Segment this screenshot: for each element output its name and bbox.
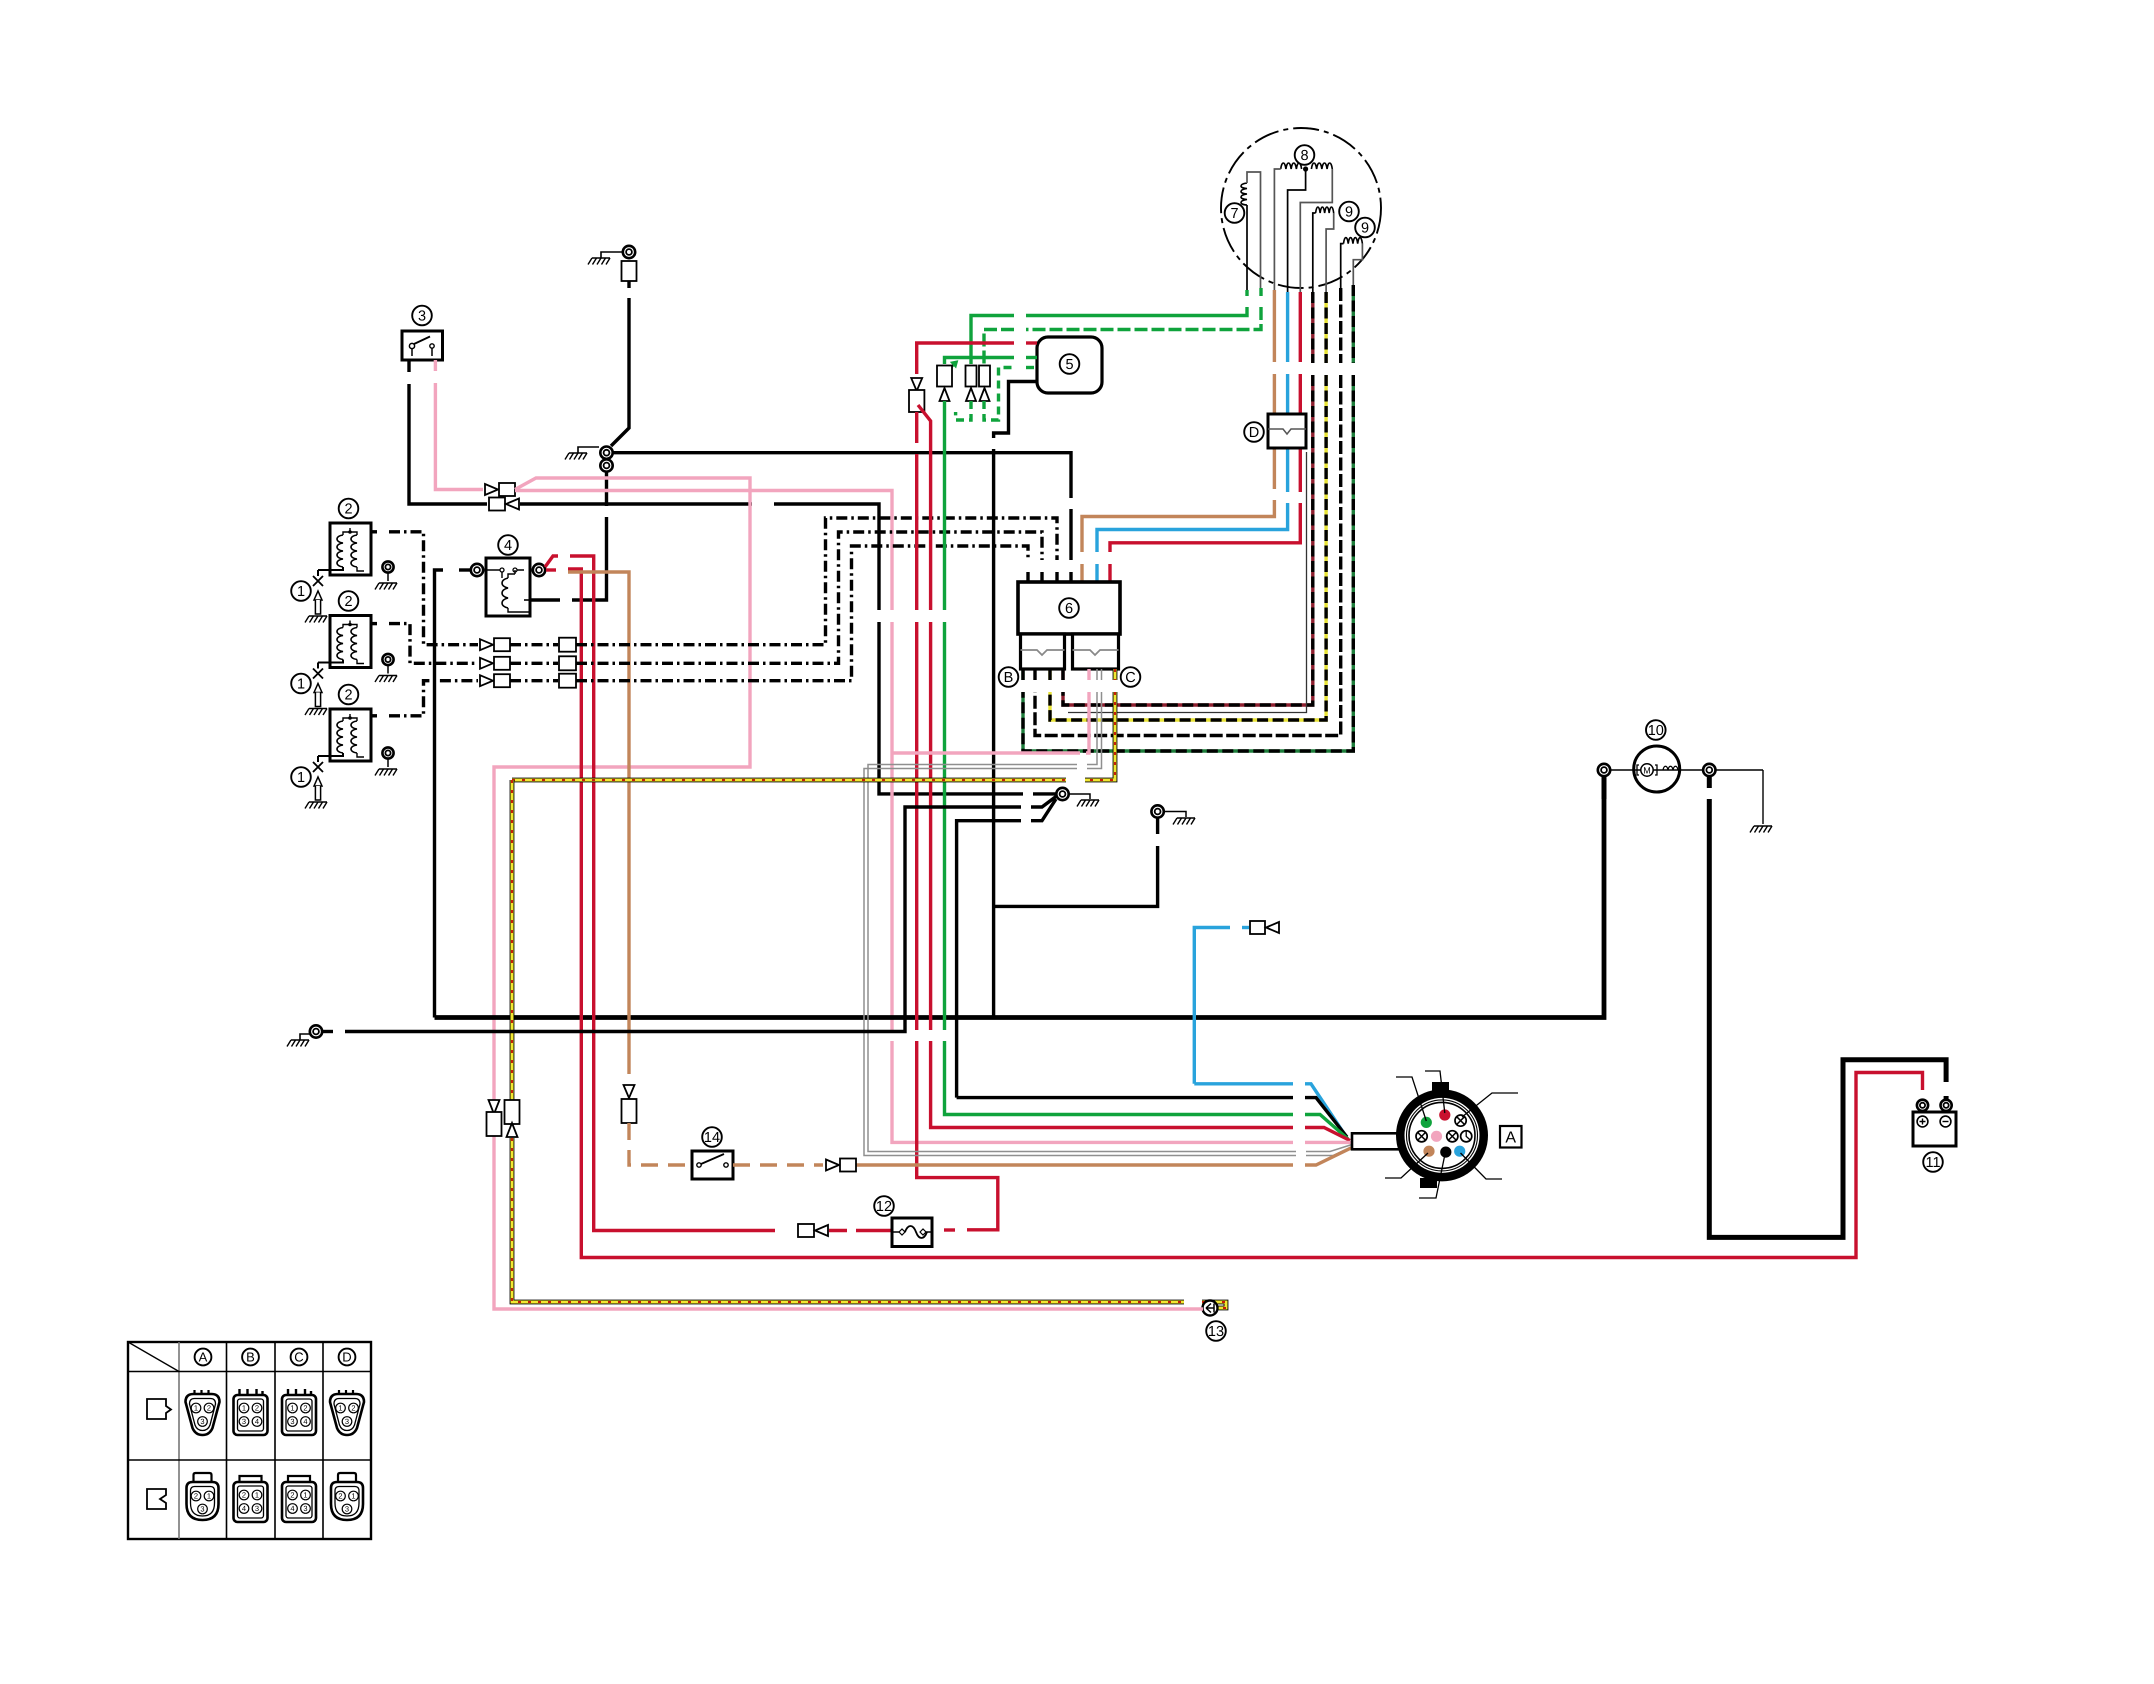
label 2 [339, 591, 359, 611]
wire brown flywheel to rectifier D [1273, 290, 1276, 362]
label 12 [874, 1196, 894, 1216]
warning lamp 13 [1203, 1301, 1218, 1316]
wire pink CDI C to harness [1087, 669, 1090, 680]
wire black comp5 down [994, 382, 1037, 439]
svg-text:3: 3 [242, 1417, 246, 1426]
table cell B1 [240, 1389, 263, 1395]
label 9 (first) [1339, 202, 1359, 222]
svg-text:4: 4 [290, 1504, 294, 1513]
pin white [1461, 1131, 1472, 1142]
connector pair on red fuse wire [798, 1224, 814, 1237]
label 2 [339, 499, 359, 519]
label 6 [1059, 598, 1079, 618]
svg-text:2: 2 [207, 1404, 211, 1413]
ignition coil 2 (#3) [330, 709, 371, 761]
wire pink branch upper to x750 [494, 478, 750, 1100]
svg-text:1: 1 [207, 1492, 211, 1501]
table cell A2 [194, 1473, 212, 1482]
table cell C1 [288, 1389, 311, 1395]
label 3 [412, 306, 432, 326]
svg-text:4: 4 [242, 1504, 246, 1513]
svg-text:2: 2 [338, 1492, 342, 1501]
label 11 [1923, 1152, 1943, 1172]
switch 14 [692, 1151, 733, 1179]
svg-text:10: 10 [1648, 723, 1664, 739]
wire red comp5 angled branch to connector A [918, 405, 931, 610]
wire blue flywheel through D [1286, 292, 1289, 362]
svg-text:7: 7 [1230, 206, 1238, 222]
relay R4 [486, 558, 530, 616]
wire black long y=453 to CDI drop [613, 453, 1071, 498]
label 9 (second) [1355, 218, 1375, 238]
rectifier D [1268, 414, 1306, 448]
fuse 12 [892, 1218, 932, 1247]
pin green [1421, 1117, 1432, 1128]
table cell D2 [338, 1473, 356, 1482]
spark plug 1 (#2) [317, 663, 319, 669]
wire brown harness segment [856, 1163, 1293, 1166]
svg-text:1: 1 [297, 677, 305, 693]
svg-text:C: C [1125, 670, 1135, 686]
svg-text:9: 9 [1345, 205, 1353, 221]
svg-text:4: 4 [504, 538, 512, 554]
label 2 [339, 685, 359, 705]
wire pink straight to x892 [515, 491, 892, 611]
wire dashdot coil3 primary [371, 714, 377, 717]
wire black from top ground down [627, 281, 630, 288]
starter motor 10 [1634, 746, 1680, 792]
wire black pulser2 to CDI B [1339, 288, 1342, 363]
svg-text:2: 2 [344, 688, 352, 704]
ground (top) [592, 257, 610, 259]
svg-text:D: D [1249, 425, 1259, 441]
svg-text:9: 9 [1361, 221, 1369, 237]
label C [1121, 667, 1141, 687]
svg-text:8: 8 [1300, 148, 1308, 164]
bolt engine ground 1 [1056, 788, 1068, 800]
connector B housing [1021, 634, 1065, 669]
connector pair on pink lamp wire [489, 1100, 500, 1114]
table cell D1 [339, 1390, 353, 1394]
control unit 5 [1037, 337, 1102, 393]
connector pair on black S3 wire [489, 498, 505, 511]
connector A body [1396, 1089, 1488, 1181]
ground at motor [1762, 770, 1764, 824]
bolt double (engine block joint) [600, 447, 612, 459]
label 4 [498, 535, 518, 555]
pin empty mid [1447, 1131, 1458, 1142]
svg-text:2: 2 [351, 1404, 355, 1413]
svg-text:4: 4 [255, 1417, 259, 1426]
connector on green/white [979, 366, 990, 387]
svg-text:3: 3 [345, 1505, 349, 1514]
svg-text:1: 1 [297, 584, 305, 600]
view icon male [147, 1399, 171, 1419]
wire red flywheel through D [1299, 292, 1302, 362]
svg-text:12: 12 [876, 1199, 892, 1215]
pin brown [1423, 1146, 1434, 1157]
wire black/yellow pulser1 to CDI B [1324, 292, 1327, 363]
svg-text:1: 1 [338, 1404, 342, 1413]
label B [999, 667, 1019, 687]
svg-text:2: 2 [242, 1491, 246, 1500]
bolt engine ground 2 [1151, 805, 1163, 817]
svg-text:14: 14 [704, 1130, 720, 1146]
svg-text:2: 2 [290, 1491, 294, 1500]
coil 9 pulser coil 1 [1316, 207, 1334, 213]
svg-text:1: 1 [303, 1491, 307, 1500]
pink stub into lamp [1200, 1307, 1203, 1310]
table cell A1 [195, 1390, 209, 1394]
svg-text:B: B [246, 1350, 255, 1365]
svg-text:3: 3 [255, 1504, 259, 1513]
connector C housing [1073, 634, 1119, 669]
wire black relay to vertical [459, 568, 470, 571]
ignition coil 2 (#1) [330, 523, 371, 575]
flywheel magneto outline [1221, 128, 1381, 288]
bolt battery minus [1941, 1100, 1952, 1111]
ground bolt of coil 1 [382, 561, 393, 572]
svg-text:11: 11 [1925, 1155, 1940, 1171]
svg-text:D: D [342, 1350, 351, 1365]
wire black bolt down to relay [605, 472, 608, 506]
connector A leader lines [1396, 1077, 1426, 1121]
wire blue accessory [1194, 928, 1230, 1084]
wire black/red pulser1 to CDI B [1311, 292, 1314, 363]
view icon female [147, 1489, 166, 1509]
table cell B2 [240, 1476, 262, 1482]
label 10 [1646, 720, 1666, 740]
pin blue [1454, 1146, 1465, 1157]
pin black [1440, 1147, 1451, 1158]
svg-text:A: A [1505, 1130, 1516, 1147]
bolt battery plus [1917, 1100, 1928, 1111]
pin pink [1431, 1131, 1442, 1142]
svg-text:4: 4 [303, 1417, 307, 1426]
svg-text:3: 3 [200, 1505, 204, 1514]
label 8 [1295, 145, 1315, 165]
svg-text:2: 2 [194, 1492, 198, 1501]
svg-text:3: 3 [200, 1417, 204, 1426]
switch S3 (engine stop) [402, 331, 443, 360]
wire green/white dashed from flywheel [1259, 288, 1262, 296]
label 14 [702, 1127, 722, 1147]
bolt motor right [1703, 764, 1715, 776]
label A box [1500, 1126, 1522, 1148]
battery 11 [1913, 1112, 1956, 1146]
wire red relay B battery feed [546, 568, 556, 571]
ground bolt of coil 3 [382, 747, 393, 758]
wire black motor to battery minus [1707, 777, 1712, 788]
coil 8 charge coil [1281, 163, 1302, 169]
svg-text:3: 3 [345, 1417, 349, 1426]
bolt relay right [533, 564, 545, 576]
svg-text:2: 2 [344, 502, 352, 518]
bolt relay left [471, 564, 483, 576]
svg-text:13: 13 [1208, 1324, 1224, 1340]
coil 9 pulser coil 2 [1344, 238, 1363, 244]
svg-text:1: 1 [351, 1492, 355, 1501]
connector pair on pink S3 wire [485, 484, 498, 495]
svg-text:2: 2 [344, 594, 352, 610]
wire black branch to engine ground bolt2 [994, 846, 1158, 906]
svg-text:3: 3 [418, 309, 426, 325]
ground bolt of coil 2 [382, 654, 393, 665]
wire black relay-starter y1017 [435, 788, 1605, 1018]
wire black from S3 [407, 360, 410, 372]
svg-text:5: 5 [1065, 357, 1073, 373]
harness sleeve [1352, 1133, 1408, 1149]
wire gray pair CDI C [1096, 669, 1098, 680]
svg-text:B: B [1004, 670, 1014, 686]
label 5 [1060, 354, 1080, 374]
spark plug 1 (#3) [317, 756, 319, 762]
coil 7 lighting coil [1241, 183, 1247, 205]
shield line pulser wires [1068, 452, 1307, 713]
wire dashdot coil2 primary [371, 622, 377, 625]
svg-text:1: 1 [194, 1404, 198, 1413]
table cell C2 [288, 1476, 310, 1482]
label D [1244, 422, 1264, 442]
svg-text:1: 1 [255, 1491, 259, 1500]
svg-text:6: 6 [1065, 601, 1073, 617]
wire dashdot coil1 primary [371, 530, 377, 533]
wire pink from S3 [434, 360, 437, 371]
CDI unit 6 [1018, 582, 1120, 634]
svg-text:C: C [294, 1350, 303, 1365]
svg-text:A: A [199, 1350, 208, 1365]
label 7 [1225, 203, 1245, 223]
label 1 [291, 581, 311, 601]
svg-text:3: 3 [303, 1504, 307, 1513]
connector pair on yellow/red [505, 1100, 520, 1124]
table header labels [195, 1349, 212, 1366]
fan wires to connector A sleeve [1305, 1084, 1345, 1135]
label 1 [291, 674, 311, 694]
pin red [1439, 1109, 1450, 1120]
ignition coil 2 (#2) [330, 616, 371, 668]
wire yellow/red CDI C to warning lamp [1113, 669, 1118, 680]
wire black strap from left ground [310, 1025, 322, 1037]
svg-text:1: 1 [297, 770, 305, 786]
wire red comp5 straight branch to fuse loop [915, 412, 918, 443]
spark plug 1 (#1) [317, 570, 319, 576]
connector terminal below top ground bolt [622, 261, 637, 281]
svg-text:M: M [1643, 766, 1651, 776]
wire green (lighting) from flywheel [1245, 290, 1248, 296]
label 13 [1206, 1321, 1226, 1341]
wire brown relay to trim switch S14 [568, 572, 629, 1074]
svg-text:1: 1 [290, 1404, 294, 1413]
connector on green [966, 366, 977, 387]
wire black/green pulser2 to CDI B [1352, 285, 1355, 363]
pin empty top right [1455, 1115, 1466, 1126]
wire black fan-A ground branch [957, 821, 1021, 1098]
svg-text:3: 3 [290, 1417, 294, 1426]
svg-text:2: 2 [255, 1404, 259, 1413]
label 1 [291, 767, 311, 787]
green mating arrow [945, 364, 955, 375]
wire brown after switch 14 [733, 1163, 823, 1166]
bolt motor left [1598, 764, 1610, 776]
connector view table [128, 1342, 371, 1539]
svg-text:1: 1 [242, 1404, 246, 1413]
wire red comp5 [1026, 341, 1037, 344]
pin empty left [1416, 1131, 1427, 1142]
svg-text:2: 2 [303, 1404, 307, 1413]
wire red relay A to fuse [545, 556, 558, 567]
wire green comp5 to connector A [1026, 356, 1037, 359]
